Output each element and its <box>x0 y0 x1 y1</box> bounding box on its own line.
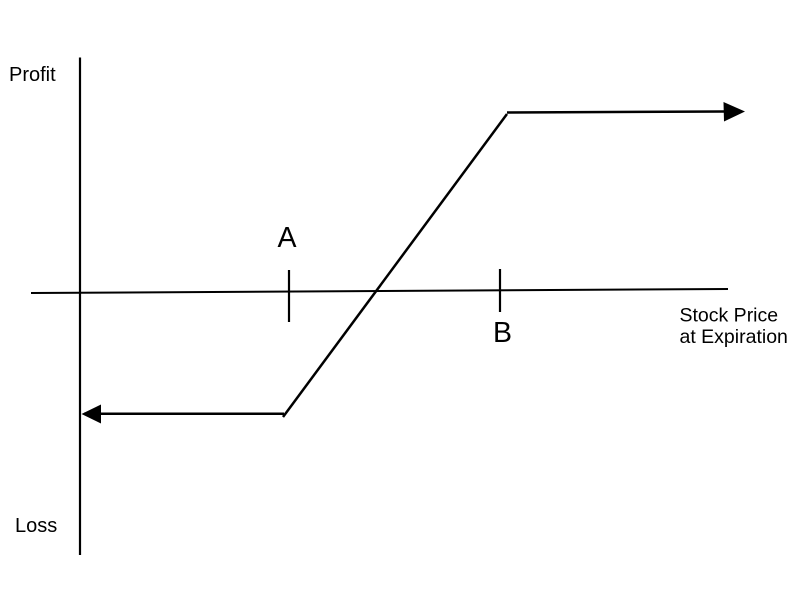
svg-text:at Expiration: at Expiration <box>680 326 788 348</box>
svg-text:Stock Price: Stock Price <box>680 305 779 327</box>
svg-text:A: A <box>278 222 297 254</box>
svg-text:Profit: Profit <box>9 64 56 86</box>
svg-text:B: B <box>493 317 512 349</box>
svg-text:Loss: Loss <box>15 515 57 537</box>
